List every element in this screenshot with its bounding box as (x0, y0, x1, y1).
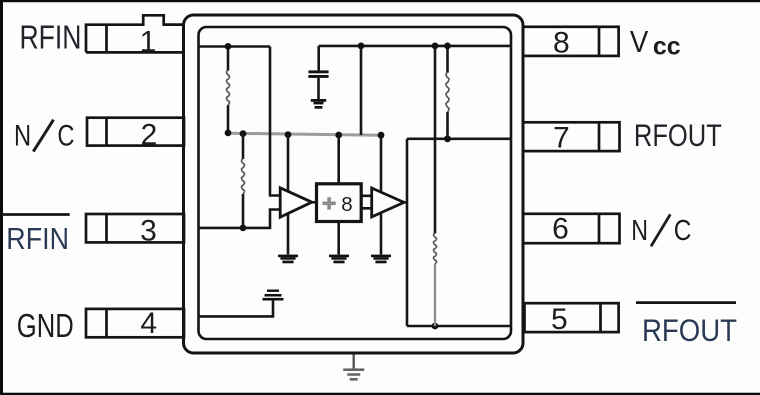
wire: bias drop to amp U2 top edge (287, 135, 290, 192)
ground under capacitor C1 (311, 99, 326, 109)
node: cap/bus feed on Vcc rail (358, 43, 365, 50)
capacitor C1 bottom stem (317, 78, 320, 99)
pin 3 lead (86, 214, 184, 242)
svg-text:RFOUT: RFOUT (634, 119, 722, 154)
label RFIN pin1 (20, 20, 82, 56)
ground below package (chassis) bars (343, 368, 364, 380)
svg-text:8: 8 (553, 26, 570, 59)
wire: Vin top rail from pin1 (segment A) (198, 45, 270, 48)
svg-text:RFOUT: RFOUT (642, 313, 737, 348)
node: R4 bottom on pin5 rail (432, 323, 439, 330)
svg-text:N: N (14, 119, 31, 152)
pin 3 divider (105, 214, 108, 242)
IC package U1 inner outline (199, 27, 512, 339)
svg-text:5: 5 (551, 303, 568, 336)
divider U3 label "divide by" sign (323, 197, 336, 209)
resistor R1 zigzag body (227, 71, 230, 106)
wire: GND from pin4 (198, 301, 273, 317)
resistor R4 bottom segment (gray) (434, 264, 436, 326)
resistor R2 top segment (446, 46, 449, 73)
ground (inverted) on pin4 net (263, 290, 284, 301)
pin 7 divider (598, 122, 601, 151)
resistor R3 bottom segment (242, 194, 245, 228)
IC package U1 outer outline (184, 15, 524, 353)
label Vcc pin8 (630, 26, 681, 61)
ground under amp U2 (278, 255, 298, 264)
svg-text:1: 1 (140, 26, 157, 59)
ground under divider U3 (329, 255, 349, 264)
resistor R3 top segment (242, 134, 245, 159)
label N/C pin6 (631, 214, 691, 246)
node: R2 top on Vcc rail (444, 43, 451, 50)
label RFOUT pin7 (634, 119, 722, 154)
op-amp U4 output buffer (372, 188, 404, 217)
wire: bias drop to amp U4 top edge (380, 135, 383, 192)
divider U3 box (317, 184, 362, 222)
svg-text:N: N (631, 216, 648, 247)
svg-text:2: 2 (141, 118, 158, 151)
svg-text:4: 4 (140, 307, 157, 340)
svg-text:V: V (630, 26, 649, 60)
pin 8 divider (598, 27, 601, 56)
resistor R2 bottom segment (446, 112, 449, 139)
node: R2 bottom on pin7 rail (444, 135, 451, 142)
ground below package (chassis) stem (353, 355, 355, 370)
resistor R4 top segment (434, 46, 437, 234)
pin 2 divider (105, 118, 108, 146)
svg-text:GND: GND (17, 308, 74, 345)
resistor R1 top segment (227, 47, 230, 71)
pin 5 divider (599, 303, 602, 332)
pin 6 lead (523, 214, 620, 243)
svg-text:8: 8 (341, 193, 352, 216)
wire: RFOUT rail to pin7 (407, 138, 510, 141)
resistor R2 zigzag body (446, 73, 449, 112)
node: bias tap to amp U4 (bus end) (378, 132, 385, 139)
pin 1 lead (86, 15, 183, 52)
capacitor C1 plates (308, 70, 328, 78)
op-amp U2 input buffer (280, 188, 312, 217)
wire: Vcc top rail (segment B) from cap to pin8 (319, 45, 510, 48)
wire: vertical drop x270 to amp U2 upper input (270, 47, 281, 196)
node: R1 bottom on bus (225, 130, 232, 137)
wire: amp U2 output to divider U3 (312, 201, 317, 204)
node: R1 top junction (225, 43, 232, 50)
svg-text:7: 7 (553, 122, 570, 155)
wire: RFIN-bar from pin3 to amp U2 lower input (198, 210, 281, 228)
pin 5 lead (525, 303, 619, 332)
wire: gray bias bus (228, 133, 381, 135)
resistor R1 bottom segment (227, 105, 230, 133)
svg-text:6: 6 (552, 213, 569, 246)
pin 6 divider (598, 214, 601, 243)
pin 4 divider (105, 309, 108, 337)
node: bias tap to amp U2 (285, 131, 292, 138)
wire: amp U4 ground stem (380, 213, 383, 255)
resistor R4 zigzag body (434, 234, 437, 264)
wire: RFOUT-bar rail to pin5 (407, 325, 510, 328)
resistor R3 zigzag body (242, 159, 245, 194)
wire: divider U3 outputs to amp U4 (361, 196, 372, 209)
node: bias tap to divider U3 (335, 132, 342, 139)
pin 2 lead (87, 118, 184, 146)
svg-text:cc: cc (653, 33, 681, 61)
wire: Vcc rail drop to bias bus (360, 46, 363, 135)
capacitor C1 top stem (317, 46, 320, 71)
pin 8 lead (523, 27, 619, 56)
pin 7 lead (523, 122, 620, 151)
node: R4 top on Vcc rail (432, 43, 439, 50)
label RFIN-bar pin3 (2, 215, 70, 257)
svg-text:C: C (674, 214, 692, 246)
pin 4 lead (86, 309, 184, 337)
wire: divider U3 top bias stem (337, 135, 340, 184)
wire: divider U3 ground stem (337, 222, 340, 255)
svg-text:3: 3 (140, 214, 157, 247)
wire: amp U2 ground stem (287, 214, 290, 255)
wire: output vertical x407 between RFOUT rails (406, 139, 409, 326)
svg-text:RFIN: RFIN (6, 223, 69, 257)
label RFOUT-bar pin5 (636, 303, 737, 349)
label N/C pin2 (14, 119, 75, 152)
svg-text:RFIN: RFIN (20, 20, 82, 56)
wire: amp U4 output stub (404, 201, 407, 204)
ground under amp U4 (371, 255, 391, 264)
label GND pin4 (17, 308, 74, 345)
node: R3 top on bus (240, 130, 247, 137)
node: R3 bottom on RFIN-bar wire (240, 225, 247, 232)
svg-text:C: C (57, 119, 74, 152)
